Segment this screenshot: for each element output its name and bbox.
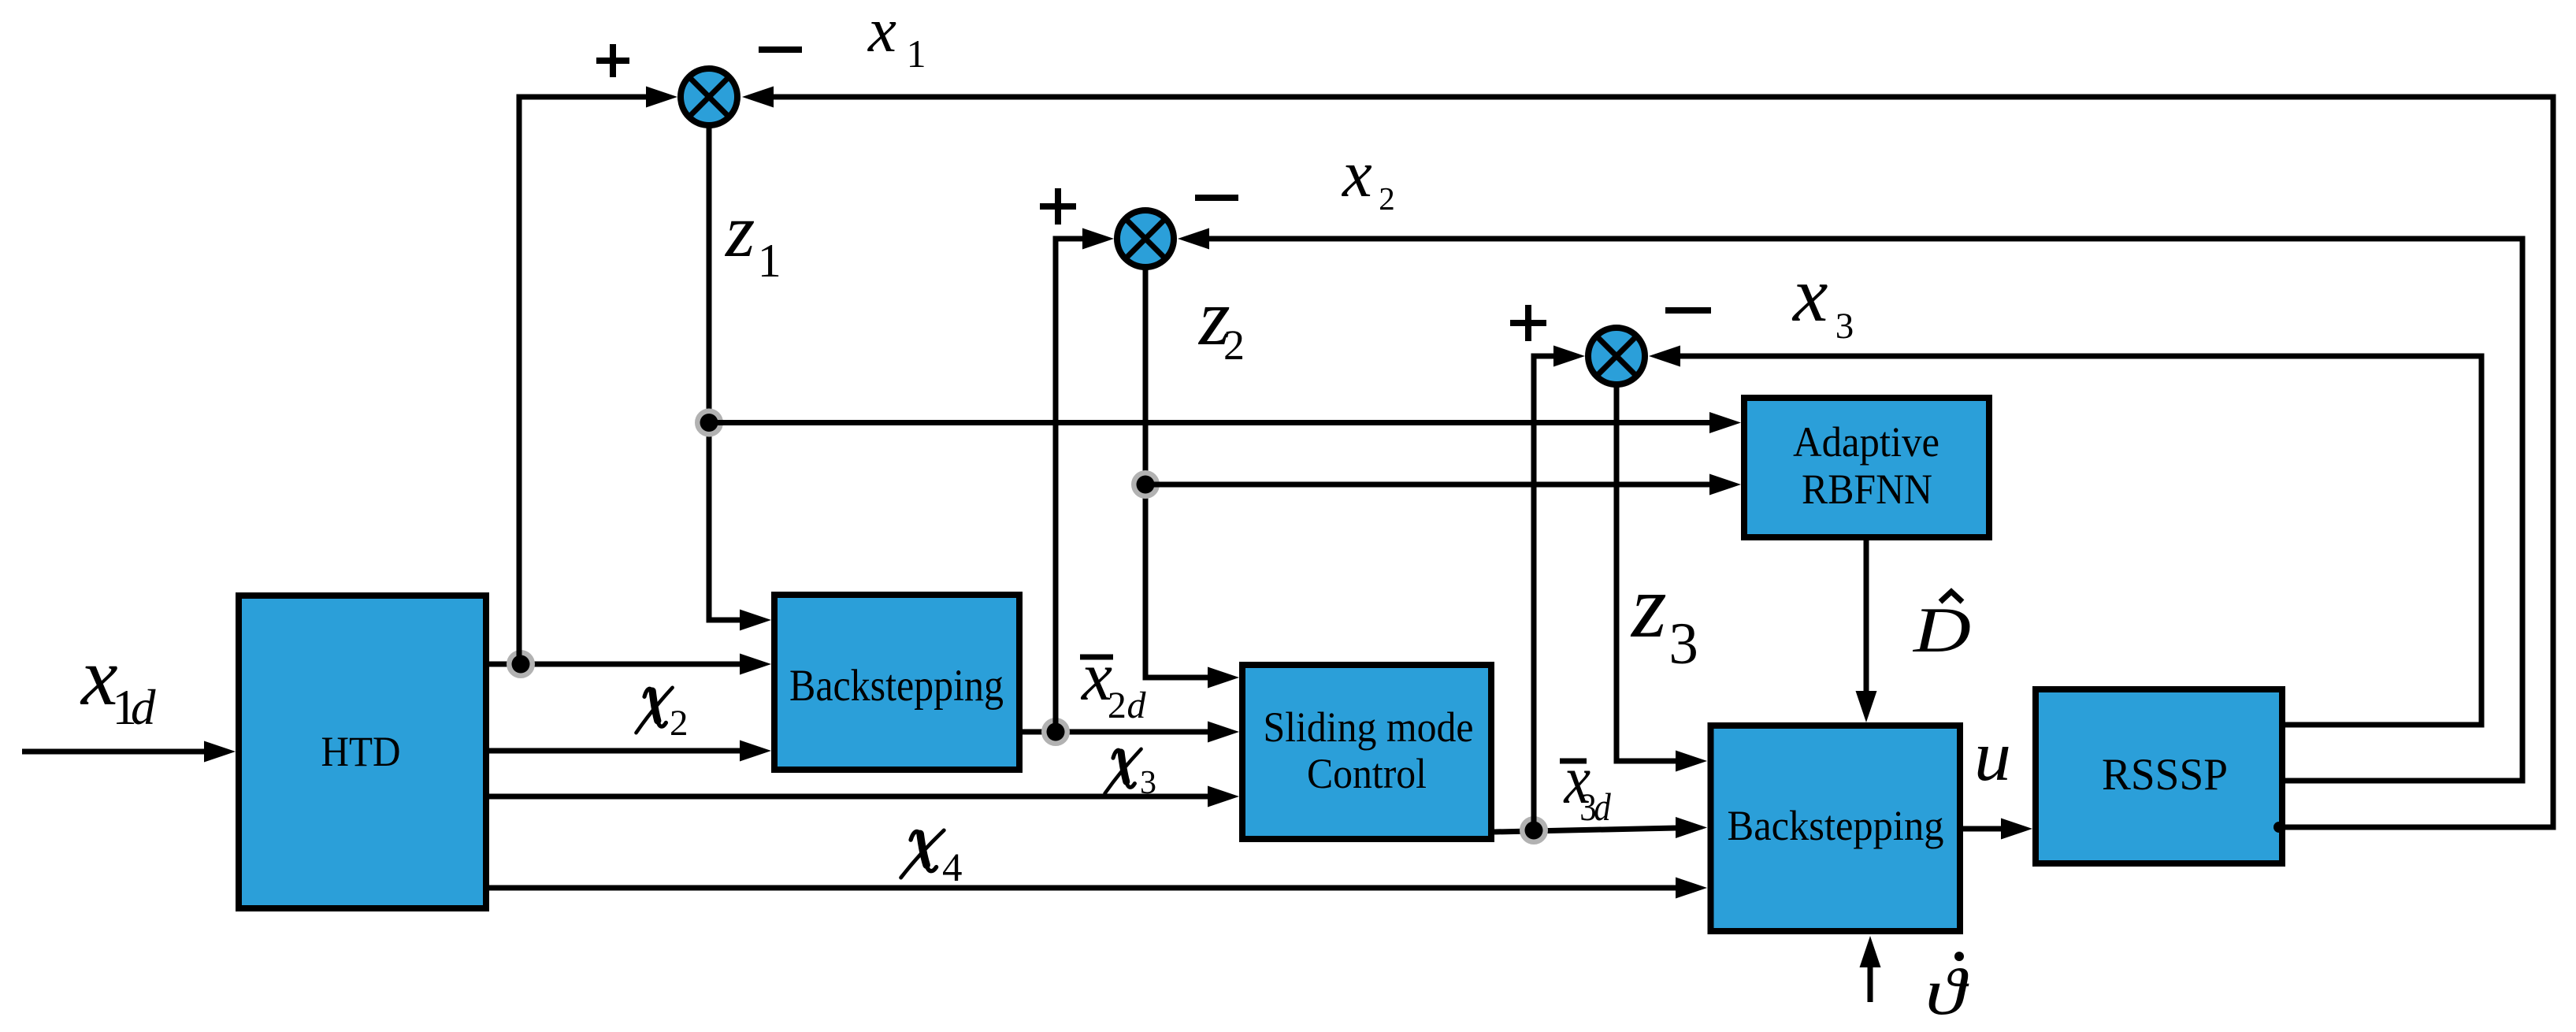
svg-text:1: 1 [758, 235, 781, 287]
label D hat [1913, 592, 1971, 666]
wire u Backstepping2 to RSSSP [1963, 819, 2032, 840]
node x2d junction [1045, 721, 1067, 744]
label x1d input [80, 630, 156, 735]
svg-text:x: x [1341, 137, 1372, 211]
block Adaptive RBFNN [1744, 398, 1989, 537]
wire x2 feedback [1178, 228, 2522, 781]
wire z1 sum1 to Backstepping [709, 125, 771, 631]
block Sliding mode Control [1242, 665, 1491, 839]
wire x3d Sliding mode to Backstepping2 [1494, 817, 1707, 838]
label u [1974, 716, 2011, 796]
wire z2 sum2 to Sliding mode [1145, 267, 1239, 689]
svg-text:2: 2 [1379, 180, 1395, 217]
node z2 junction [1134, 473, 1157, 496]
svg-text:z: z [1630, 556, 1667, 656]
svg-text:4: 4 [942, 846, 963, 890]
svg-text:3: 3 [1668, 611, 1698, 677]
wire x3 feedback [1649, 346, 2481, 726]
svg-text:z: z [724, 188, 755, 273]
svg-text:2: 2 [1223, 321, 1245, 369]
node x3d junction [1523, 819, 1546, 842]
svg-text:d: d [1127, 685, 1147, 726]
svg-text:Control: Control [1307, 750, 1427, 797]
minus sign sum3 [1665, 307, 1711, 314]
label z2 [1197, 273, 1245, 369]
svg-text:1: 1 [907, 32, 926, 76]
svg-text:Backstepping: Backstepping [789, 661, 1004, 711]
label x3 feedback [1791, 251, 1854, 347]
wire x2d Backstepping to Sliding mode [1023, 722, 1239, 743]
label z1 [724, 188, 781, 287]
svg-text:2: 2 [670, 703, 689, 744]
block Backstepping first [774, 595, 1019, 770]
summing junction 1 [681, 69, 737, 125]
label theta dot [1925, 952, 1969, 1029]
label x3d bar [1560, 741, 1611, 830]
svg-text:Backstepping: Backstepping [1728, 802, 1944, 849]
node z1 junction [698, 411, 721, 434]
svg-text:u: u [1974, 716, 2011, 796]
label z3 [1630, 556, 1698, 677]
minus sign sum2 [1195, 195, 1238, 201]
svg-text:Sliding mode: Sliding mode [1264, 703, 1474, 751]
svg-text:d: d [1594, 785, 1611, 830]
wire z1 branch to RBFNN [709, 412, 1741, 433]
wire x2d up to sum2 plus [1056, 228, 1114, 733]
svg-text:RBFNN: RBFNN [1802, 466, 1932, 513]
svg-text:2: 2 [1108, 685, 1127, 726]
plus sign sum2 [1040, 188, 1076, 225]
svg-text:3: 3 [1140, 765, 1156, 801]
svg-text:RSSSP: RSSSP [2102, 750, 2228, 800]
wire z2 branch to RBFNN [1145, 474, 1741, 496]
wire chi3 HTD to Sliding mode [489, 786, 1239, 807]
svg-text:3: 3 [1835, 306, 1854, 347]
svg-text:Adaptive: Adaptive [1793, 418, 1939, 466]
plus sign sum3 [1510, 305, 1546, 341]
wire x1d HTD to Backstepping [489, 654, 771, 675]
minus sign sum1 [759, 46, 802, 53]
label x2d bar [1080, 639, 1147, 726]
label chi4 [901, 830, 963, 890]
svg-text:ϑ: ϑ [1925, 956, 1969, 1029]
wire x1d input [22, 741, 236, 763]
wire chi4 HTD to Backstepping2 [489, 878, 1707, 899]
svg-text:D: D [1913, 594, 1971, 666]
node x1d junction [510, 653, 533, 676]
node x1 feedback tap [2273, 822, 2285, 833]
summing junction 3 [1588, 328, 1645, 384]
plus sign sum1 [596, 44, 629, 77]
svg-text:d: d [131, 680, 156, 735]
wire theta dot input [1860, 936, 1881, 1002]
summing junction 2 [1117, 210, 1174, 267]
block RSSSP [2036, 689, 2282, 863]
block Backstepping second [1711, 726, 1961, 931]
wire x1d up to sum1 plus [519, 87, 677, 665]
svg-text:x: x [867, 0, 896, 65]
wire x3d up to sum3 plus [1534, 346, 1585, 831]
label x1 feedback [867, 0, 926, 76]
label x2 feedback [1341, 137, 1395, 217]
svg-text:HTD: HTD [321, 728, 401, 775]
block HTD [239, 596, 486, 908]
label chi3 [1105, 749, 1157, 801]
wire x1 feedback [742, 87, 2553, 828]
svg-text:x: x [1791, 251, 1828, 338]
label chi2 [637, 688, 689, 744]
wire Dhat RBFNN to Backstepping2 [1856, 540, 1877, 722]
wire z3 sum3 to Backstepping2 [1616, 384, 1707, 772]
wire chi2 HTD to Backstepping [489, 741, 771, 762]
